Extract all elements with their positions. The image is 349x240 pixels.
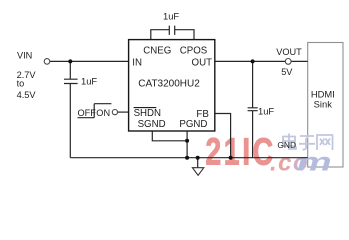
capacitor C2 loop wires [151, 30, 194, 40]
switch top bar ON [94, 103, 111, 105]
svg-text:21IC: 21IC [205, 132, 275, 174]
SHDN overline [134, 107, 157, 109]
wire VIN to IN pin [50, 60, 129, 62]
svg-text:SGND: SGND [138, 119, 166, 130]
ground rail wire [70, 157, 307, 159]
junction node OUT/C3 [251, 59, 255, 63]
svg-text:to: to [17, 79, 25, 89]
svg-text:IN: IN [132, 57, 142, 68]
capacitor C3 bottom lead [252, 111, 254, 158]
capacitor C1 top lead [69, 61, 71, 79]
wire switch to SHDN pin [118, 111, 129, 113]
junction node ground stub [196, 156, 200, 160]
IC U1 CAT3200HU2 body [129, 40, 215, 131]
junction node FB/rail [229, 156, 233, 160]
capacitor C2 plates [169, 26, 174, 35]
watermark chinese char zi [299, 136, 315, 150]
switch riser [93, 104, 95, 118]
capacitor C1 bottom lead [69, 84, 71, 158]
svg-text:1uF: 1uF [258, 105, 274, 116]
terminal VIN [44, 59, 50, 65]
capacitor C3 top lead [252, 61, 254, 107]
svg-text:1uF: 1uF [81, 75, 97, 86]
watermark chinese char wang [317, 135, 333, 150]
junction node PGND/rail [185, 156, 189, 160]
svg-text:CNEG: CNEG [143, 45, 171, 56]
watermark chinese char dian [283, 134, 333, 151]
junction node VIN/C1 [68, 59, 72, 63]
svg-text:ON: ON [96, 108, 110, 118]
terminal switch [112, 110, 117, 115]
wire OUT to HDMI sink [215, 60, 308, 62]
svg-text:OFF: OFF [78, 108, 97, 118]
svg-text:VOUT: VOUT [276, 47, 302, 57]
svg-text:m: m [297, 148, 332, 177]
svg-text:PGND: PGND [179, 119, 207, 130]
wire FB pin to ground rail [215, 114, 231, 158]
svg-text:CAT3200HU2: CAT3200HU2 [138, 78, 200, 89]
svg-text:5V: 5V [281, 67, 293, 77]
ground symbol [192, 168, 203, 176]
svg-text:GND: GND [277, 140, 296, 150]
HDMI sink block [308, 43, 343, 168]
svg-text:Sink: Sink [314, 99, 333, 110]
svg-text:1uF: 1uF [163, 11, 179, 22]
terminal VOUT [285, 59, 291, 65]
junction node SGND/PGND [185, 139, 189, 143]
svg-text:CPOS: CPOS [180, 45, 208, 56]
svg-text:VIN: VIN [17, 50, 32, 60]
wire SGND pin down and right [152, 131, 187, 141]
capacitor C1 plates [64, 79, 78, 83]
capacitor C3 plates [248, 108, 258, 111]
ground stub wire [197, 158, 199, 168]
wire PGND pin to ground rail [186, 131, 188, 158]
svg-text:SHDN: SHDN [134, 108, 161, 119]
svg-text:OUT: OUT [192, 57, 213, 68]
svg-text:HDMI: HDMI [311, 88, 335, 99]
svg-text:4.5V: 4.5V [17, 90, 37, 100]
switch underline OFF [78, 117, 95, 119]
